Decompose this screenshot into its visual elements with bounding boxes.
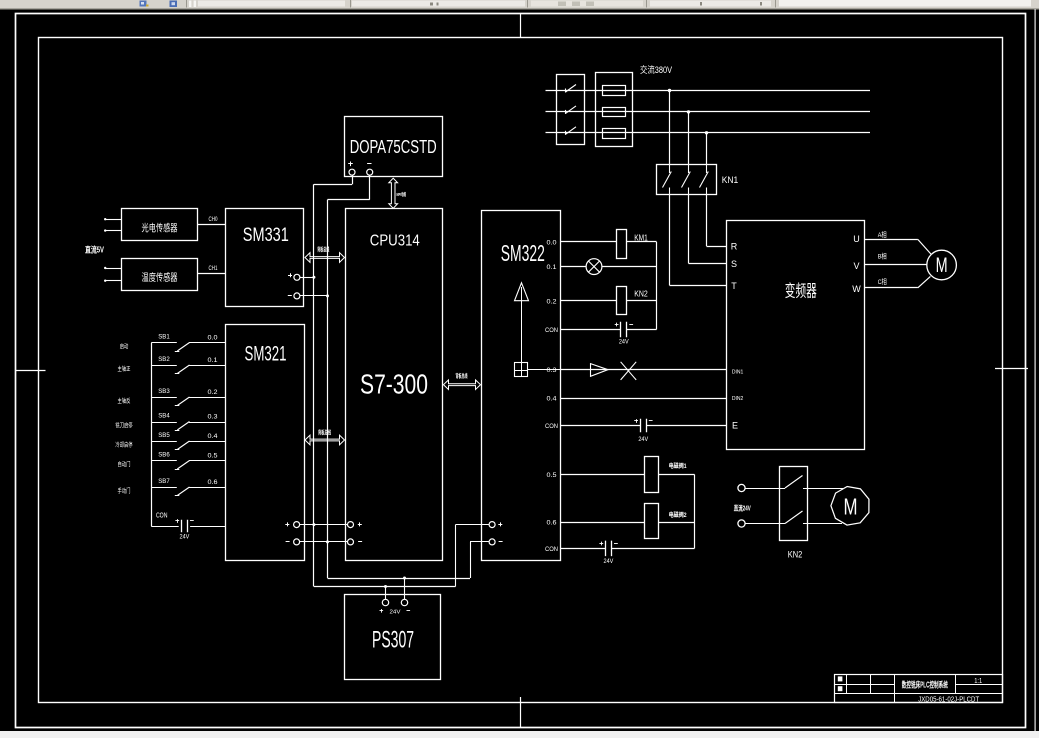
frame tick left [16, 370, 46, 372]
backplane bus arrow SM331-CPU [305, 253, 345, 263]
svg-text:SB2: SB2 [158, 356, 170, 363]
backplane bus arrow CPU-SM322 [444, 380, 481, 390]
battery 24V output group1 [620, 322, 622, 338]
svg-text:0.2: 0.2 [547, 299, 557, 306]
pushbutton SB6 wire [151, 460, 177, 462]
CPU terminal + sign [358, 524, 362, 526]
status strip bottom [0, 731, 1039, 738]
SM322 internal wire [521, 301, 523, 363]
wire KM1 to inverter R [706, 195, 708, 247]
wire L3 drop to KM1 [706, 133, 708, 164]
svg-text:B相: B相 [878, 251, 887, 260]
pushbutton SB3 blade [177, 397, 189, 406]
wire Q0.0 to KM1 coil [561, 241, 617, 243]
wire U to motor [864, 239, 918, 241]
svg-text:启动: 启动 [120, 343, 129, 351]
indicator lamp HL [586, 259, 602, 275]
phase wire L2 [546, 111, 871, 113]
output group1 return bus [656, 242, 658, 330]
svg-text:MPI电缆: MPI电缆 [397, 191, 407, 198]
svg-text:0.6: 0.6 [208, 479, 219, 486]
svg-text:DIN2: DIN2 [732, 396, 744, 402]
svg-text:SB5: SB5 [158, 432, 170, 439]
pushbutton SB2 wire [151, 365, 177, 367]
svg-text:0.6: 0.6 [547, 520, 557, 527]
node PS307- [403, 577, 406, 580]
svg-text:手动门: 手动门 [118, 487, 131, 495]
SM322 terminal - circle [489, 539, 495, 545]
svg-text:0.1: 0.1 [208, 357, 219, 364]
SM331 terminal + sign [288, 275, 292, 277]
wire KM1 to inverter S [688, 195, 690, 264]
svg-text:SB7: SB7 [158, 478, 170, 485]
contactor KN1 main contacts box [657, 165, 717, 195]
svg-text:电磁阀2: 电磁阀2 [669, 511, 687, 519]
svg-text:SB3: SB3 [158, 388, 170, 395]
SM322 internal crossed square [515, 363, 528, 377]
toolbar small marks [430, 3, 433, 6]
supply rail plus [314, 586, 456, 588]
svg-text:JXD05-61-02J-PLCDT: JXD05-61-02J-PLCDT [918, 694, 979, 703]
wire SM331- to bus [300, 295, 328, 297]
svg-text:背板总线: 背板总线 [456, 372, 468, 380]
wire W to motor [864, 287, 918, 289]
inverter box [727, 221, 865, 450]
wire V to motor [864, 264, 927, 266]
title block table [835, 675, 1003, 703]
node SM331- junction [326, 294, 329, 297]
svg-text:U: U [853, 234, 860, 244]
svg-text:CON: CON [545, 423, 558, 430]
svg-text:电磁阀1: 电磁阀1 [669, 462, 687, 470]
frame tick top [520, 14, 522, 38]
svg-text:C相: C相 [878, 277, 887, 286]
terminal circle DC24V- [738, 520, 745, 527]
photo sensor stub 2 [106, 230, 122, 232]
DOPA terminal + circle [349, 169, 355, 175]
wire SM331+ to bus [300, 277, 314, 279]
wire L1 drop to KM1 [669, 91, 671, 165]
solenoid valve 2 coil [645, 504, 659, 539]
toolbar icon 2 [170, 1, 178, 8]
svg-text:24V: 24V [604, 558, 614, 565]
svg-text:S7-300: S7-300 [360, 368, 428, 399]
svg-text:铣刀启停: 铣刀启停 [115, 422, 132, 430]
title block cell mark 2 [838, 686, 843, 691]
svg-text:主轴反: 主轴反 [118, 397, 131, 405]
wire Q0.6 to valve2 [561, 522, 645, 524]
svg-text:V: V [853, 261, 859, 271]
wire CON1 row [561, 329, 621, 331]
module SM322 box [482, 211, 561, 561]
wire DOPA+ down [352, 175, 354, 184]
svg-text:KN2: KN2 [634, 290, 648, 299]
svg-text:W: W [852, 284, 861, 294]
node SM331+ junction [312, 276, 315, 279]
svg-text:0.2: 0.2 [208, 389, 219, 396]
wire CON2 to E [561, 425, 641, 427]
backplane bus arrow SM321-CPU [305, 435, 345, 445]
svg-text:CON: CON [156, 510, 168, 519]
svg-text:0.4: 0.4 [208, 433, 219, 440]
svg-text:SM322: SM322 [501, 240, 545, 266]
valve group return bus [694, 474, 696, 548]
svg-text:0.4: 0.4 [547, 396, 557, 403]
SM322 terminal - sign [499, 541, 503, 543]
SM321 terminal - sign [286, 541, 290, 543]
pushbutton SB3 wire [151, 397, 177, 399]
svg-text:温度传感器: 温度传感器 [142, 271, 178, 284]
module SM321 box [226, 325, 305, 561]
svg-text:M: M [844, 494, 858, 520]
toolbar icon 1 [140, 1, 147, 7]
svg-text:SM331: SM331 [243, 225, 289, 246]
svg-text:0.0: 0.0 [208, 335, 219, 342]
CPU terminal - circle [348, 539, 354, 545]
svg-text:DOPA75CSTD: DOPA75CSTD [350, 137, 437, 157]
DOPA terminal + sign [348, 163, 353, 165]
DOPA terminal - sign [367, 163, 371, 165]
SM331 terminal + circle [294, 274, 300, 280]
wire SM321- to CPU- [300, 541, 348, 543]
frame tick bottom [520, 697, 522, 727]
wire DC- to KN2 [745, 523, 785, 525]
KN2 contact blade 2 [785, 511, 803, 524]
breaker QS pole 1 [566, 85, 577, 93]
fuse FU2 [603, 108, 626, 117]
svg-text:SB6: SB6 [158, 452, 170, 459]
node PS307+ [384, 585, 387, 588]
wire PS307- stub [404, 578, 406, 599]
wire L2 drop to KM1 [688, 112, 690, 164]
terminal circle DC24V+ [738, 484, 745, 491]
wire Q0.1 to lamp [561, 266, 587, 268]
KN2 contact blade 1 [785, 476, 803, 489]
SM321 terminal + circle [294, 522, 300, 528]
title block cell mark 1 [838, 676, 843, 681]
svg-text:0.1: 0.1 [547, 264, 557, 271]
SM331 terminal - sign [288, 295, 292, 297]
wire Q0.4 to DIN2 [561, 398, 727, 400]
svg-text:CH1: CH1 [209, 265, 218, 272]
photoelectric sensor box [122, 209, 198, 241]
svg-text:直流24V: 直流24V [734, 503, 751, 512]
CPU314 box [346, 209, 443, 561]
motor M2 [831, 486, 869, 525]
svg-text:24V: 24V [638, 436, 648, 443]
KN1 contact 2 [688, 164, 690, 173]
module SM331 box [226, 209, 304, 307]
SM322 internal flow arrow [515, 283, 529, 301]
wire CON3 row [561, 548, 606, 550]
wire PS307+ stub [385, 587, 387, 600]
svg-text:1:1: 1:1 [974, 678, 982, 685]
svg-text:交流380V: 交流380V [640, 64, 672, 75]
power supply PS307 box [345, 595, 441, 680]
contactor coil KM2 [617, 287, 627, 315]
svg-text:24V: 24V [619, 339, 629, 346]
svg-text:CON: CON [545, 327, 558, 334]
svg-text:A相: A相 [878, 230, 887, 239]
svg-text:KN1: KN1 [722, 175, 739, 185]
node L3-KM1 [705, 131, 708, 134]
SM321 terminal - circle [294, 539, 300, 545]
fuse FU1 [603, 86, 626, 96]
svg-text:主轴正: 主轴正 [118, 365, 131, 373]
SM322 terminal + circle [489, 522, 495, 528]
wire valve1 to bus [658, 474, 694, 476]
MPI cable arrow [389, 178, 398, 208]
pushbutton SB5 blade [177, 441, 189, 450]
svg-text:数控铣床PLC控制系统: 数控铣床PLC控制系统 [902, 679, 948, 689]
PS307 terminal - circle [401, 599, 407, 605]
wire lamp to bus [602, 266, 657, 268]
wire Q0.5 to valve1 [561, 474, 645, 476]
pushbutton SB7 wire [151, 487, 177, 489]
svg-text:PS307: PS307 [372, 627, 414, 654]
svg-text:0.0: 0.0 [547, 239, 557, 246]
wire temp sensor to SM331 [198, 273, 226, 275]
phase wire L3 [546, 132, 871, 134]
touch panel DOPA75CSTD box [345, 117, 443, 177]
svg-text:M: M [936, 254, 948, 277]
svg-text:0.5: 0.5 [547, 472, 557, 479]
svg-text:自动门: 自动门 [118, 461, 131, 469]
wire Q0.3 to DIN1 [561, 369, 727, 371]
wire DOPA- down [369, 175, 371, 199]
battery 24V valve group [605, 541, 607, 557]
photo sensor stub 1 [106, 219, 122, 221]
temp sensor stub 1 [106, 268, 122, 270]
wire CON SM321 [151, 526, 179, 528]
wire Q0.2 to KM2 coil [561, 300, 617, 302]
wire SM322+ to supply [456, 524, 490, 526]
svg-text:SB4: SB4 [158, 413, 170, 420]
svg-text:CPU314: CPU314 [370, 232, 420, 249]
pushbutton SB1 wire [151, 342, 177, 344]
wire KM2 coil to bus [627, 300, 657, 302]
wire SM321+ to CPU+ [300, 524, 348, 526]
PS307 terminal + circle [382, 599, 388, 605]
DOPA terminal - circle [367, 169, 373, 175]
temperature sensor box [122, 259, 198, 291]
contactor KN2 contact box [780, 467, 808, 541]
svg-text:冷却启停: 冷却启停 [115, 441, 132, 449]
svg-text:DIN1: DIN1 [732, 369, 744, 375]
svg-text:E: E [732, 421, 738, 431]
svg-text:24V: 24V [390, 609, 401, 615]
svg-text:CON: CON [545, 546, 558, 553]
node bus- crossing [326, 540, 329, 543]
breaker QS box [557, 75, 585, 145]
pushbutton SB7 blade [177, 487, 189, 496]
wire valve2 to bus [658, 522, 694, 524]
battery 24V SM321 [181, 520, 183, 533]
wire KN2 to motor2 top [803, 488, 843, 490]
svg-text:SM321: SM321 [245, 343, 287, 366]
wire KM1 coil to bus [627, 241, 657, 243]
cross mark on Q0.3 [621, 362, 637, 380]
fuse FU3 [603, 129, 626, 139]
wire KN2 to motor2 bottom [803, 523, 842, 525]
contactor coil KM1 [617, 230, 627, 259]
svg-text:0.5: 0.5 [208, 453, 219, 460]
KN1 contact 1 [669, 164, 671, 173]
wire SM322- to supply [470, 541, 489, 543]
wire photo sensor to SM331 [198, 224, 226, 226]
wire KM1 to inverter T [669, 195, 671, 286]
svg-text:S: S [731, 259, 737, 269]
pushbutton SB1 blade [177, 343, 189, 352]
SM331 terminal - circle [294, 293, 300, 299]
pushbutton SB4 blade [177, 422, 189, 431]
motor M1 [927, 250, 957, 280]
breaker QS pole 2 [566, 106, 577, 114]
battery 24V inverter control [640, 419, 642, 433]
svg-text:CH0: CH0 [209, 216, 218, 223]
temp sensor stub 2 [106, 280, 122, 282]
SM322 terminal + sign [498, 524, 502, 526]
SM321 terminal + sign [285, 524, 289, 526]
input bus vertical wire [151, 343, 153, 526]
node L2-KM1 [687, 110, 690, 113]
PS307 label +24V- [380, 610, 384, 612]
svg-text:SB1: SB1 [158, 334, 170, 341]
breaker QS pole 3 [566, 127, 577, 135]
KN1 contact 3 [706, 164, 708, 173]
pushbutton SB2 blade [177, 365, 189, 374]
svg-text:直流5V: 直流5V [85, 245, 104, 255]
svg-text:光电传感器: 光电传感器 [142, 222, 178, 235]
pushbutton SB6 blade [177, 461, 189, 470]
svg-text:24V: 24V [180, 534, 190, 541]
svg-text:变频器: 变频器 [785, 282, 817, 301]
CPU terminal - sign [358, 541, 362, 543]
svg-text:0.3: 0.3 [208, 414, 219, 421]
svg-text:背板总线: 背板总线 [317, 246, 329, 254]
wire DC+ to KN2 [745, 488, 785, 490]
svg-text:KN2: KN2 [788, 550, 803, 561]
pushbutton SB5 wire [151, 441, 177, 443]
svg-text:背板总线: 背板总线 [318, 428, 331, 436]
svg-text:0.3: 0.3 [547, 367, 557, 374]
frame tick right [995, 368, 1028, 370]
toolbar strip top [0, 0, 1039, 9]
svg-text:R: R [731, 242, 738, 252]
fuse FU box [596, 73, 633, 147]
node bus+ crossing [312, 523, 315, 526]
CPU terminal + circle [348, 522, 354, 528]
flow arrow on Q0.3 [591, 364, 609, 377]
scrollbar edge right [1035, 9, 1036, 731]
solenoid valve 1 coil [645, 457, 659, 493]
svg-text:T: T [731, 281, 737, 291]
node L1-KM1 [668, 89, 671, 92]
phase wire L1 [546, 90, 871, 92]
supply rail minus [328, 578, 471, 580]
pushbutton SB4 wire [151, 422, 177, 424]
